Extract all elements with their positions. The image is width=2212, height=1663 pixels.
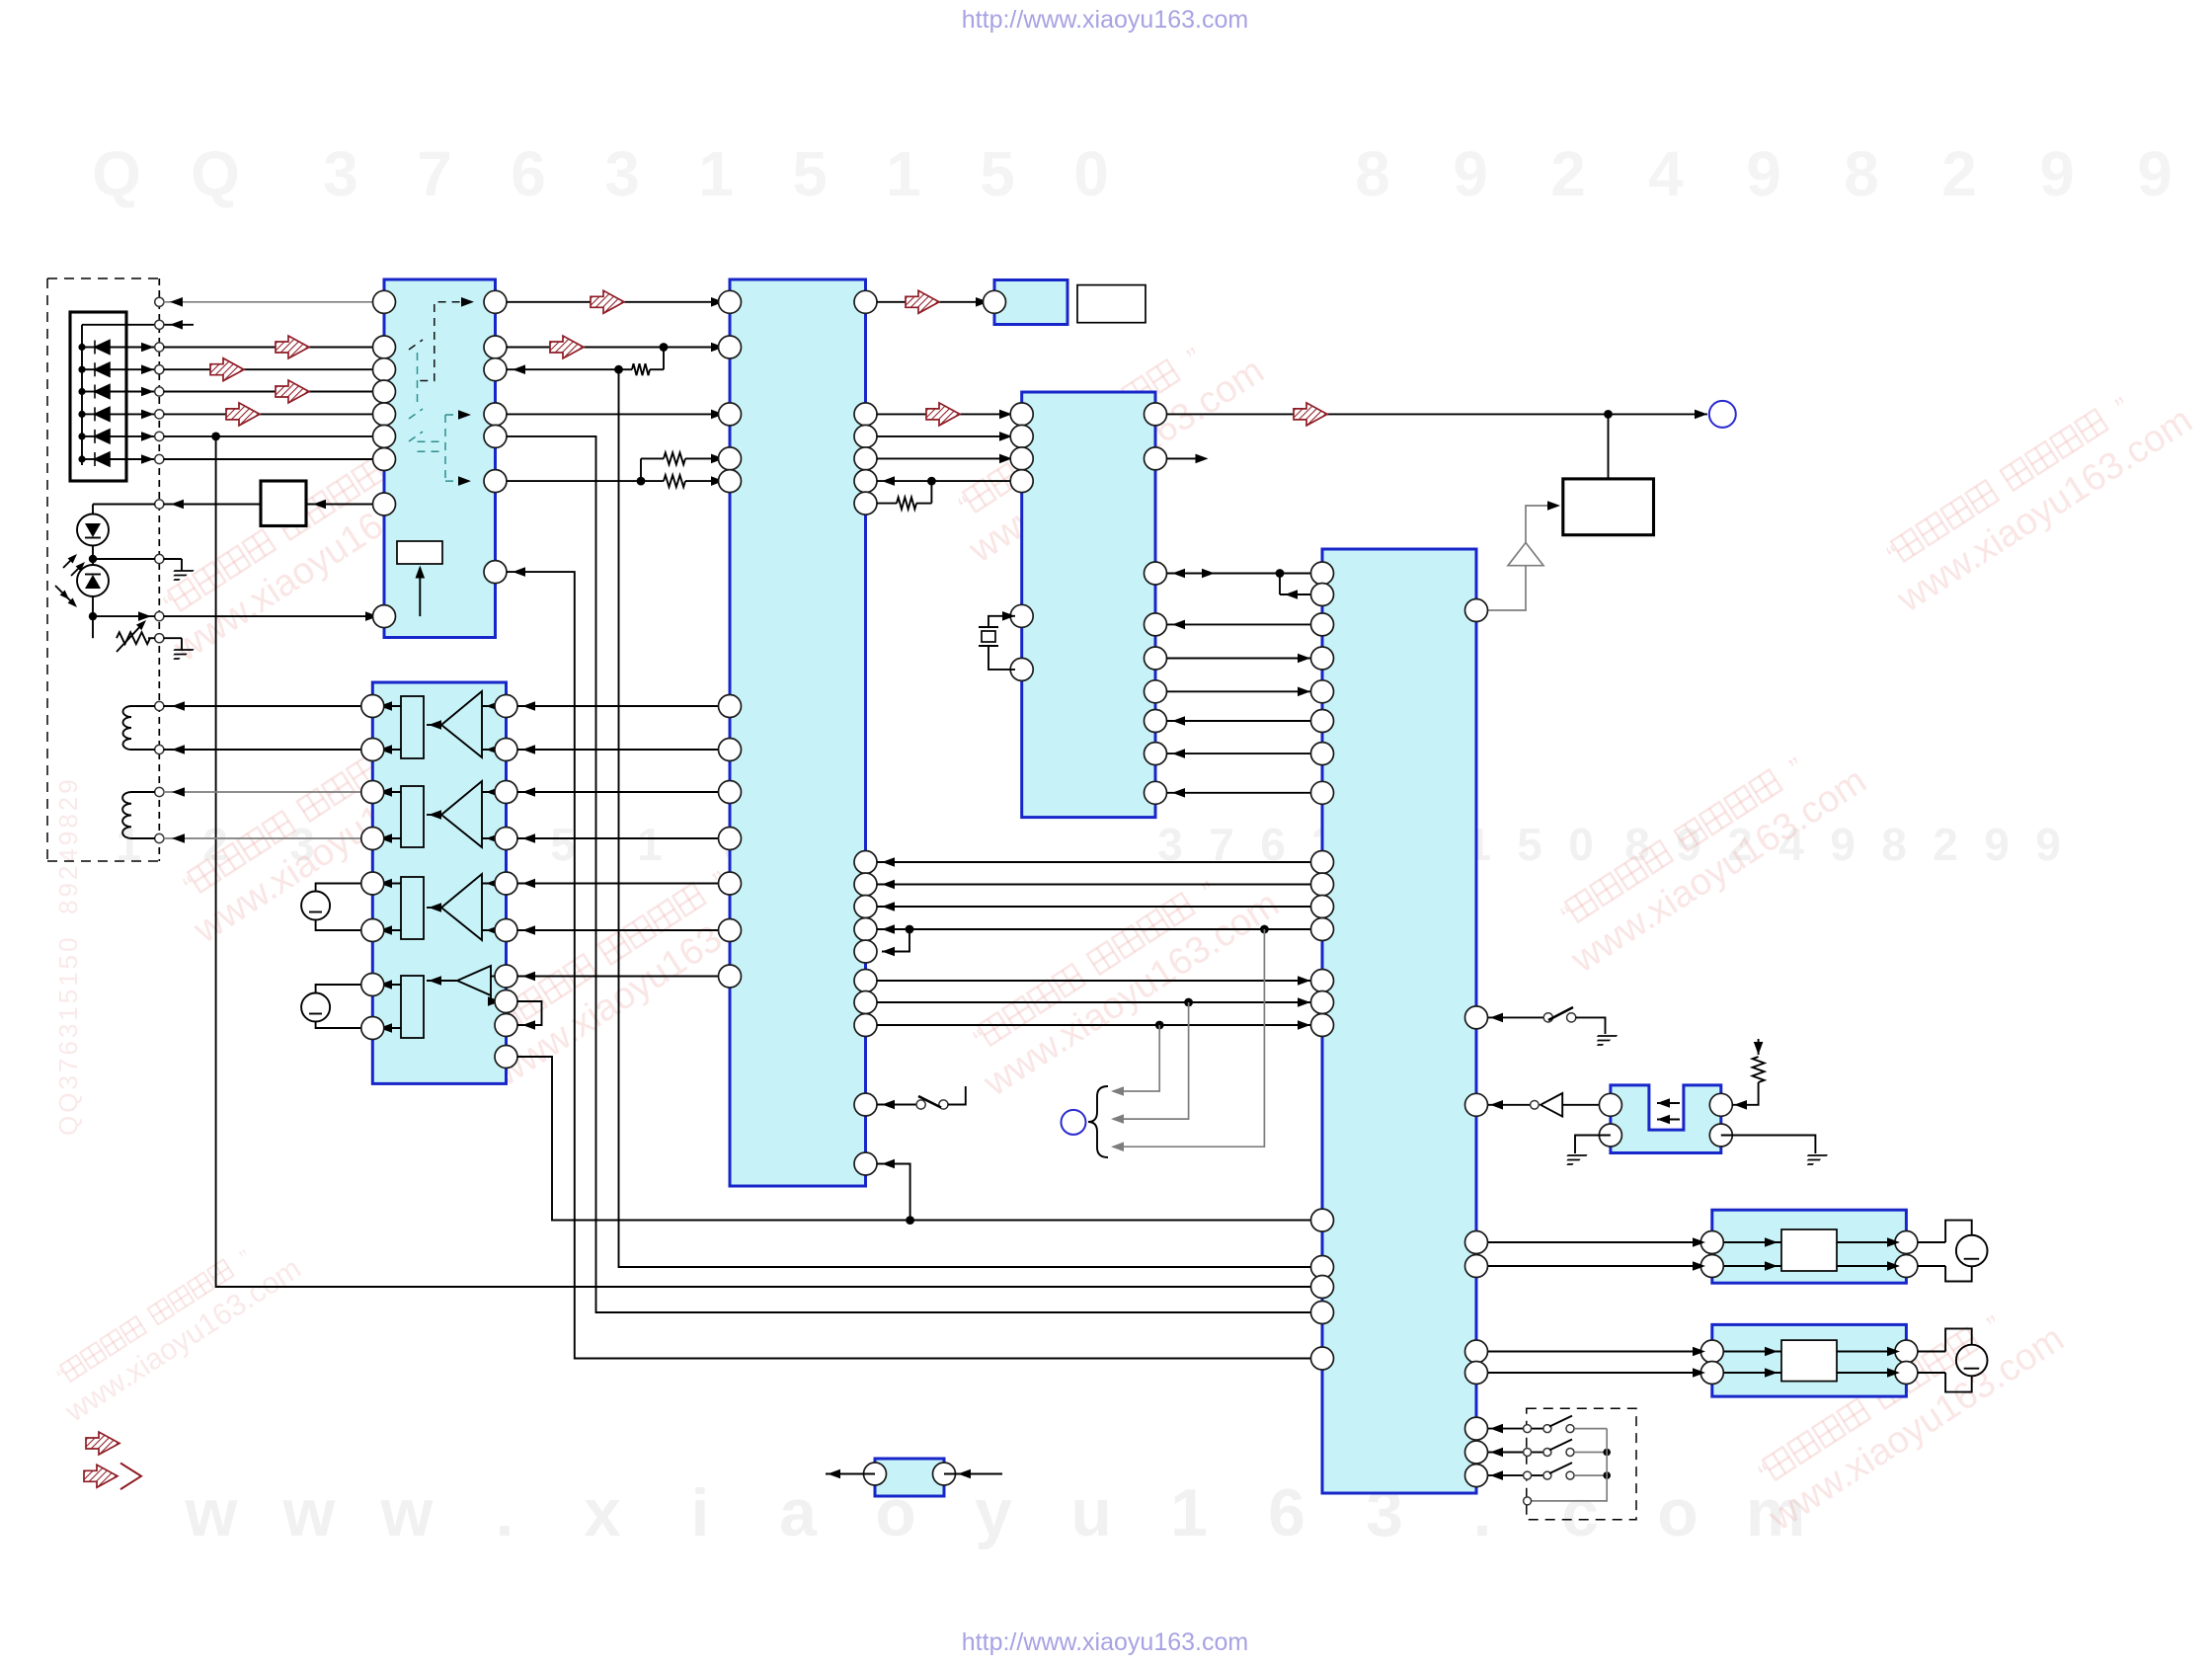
- svg-text:8: 8: [1881, 819, 1907, 870]
- svg-text:3: 3: [323, 138, 358, 209]
- svg-text:9: 9: [2039, 138, 2075, 209]
- svg-text:http://www.xiaoyu163.com: http://www.xiaoyu163.com: [962, 1628, 1248, 1656]
- svg-text:a: a: [779, 1475, 818, 1550]
- svg-text:9: 9: [1830, 819, 1856, 870]
- svg-text:5: 5: [550, 819, 576, 870]
- svg-text:w: w: [380, 1475, 434, 1550]
- svg-text:3: 3: [604, 138, 640, 209]
- svg-text:Q: Q: [92, 138, 141, 209]
- svg-text:http://www.xiaoyu163.com: http://www.xiaoyu163.com: [962, 6, 1248, 34]
- svg-text:6: 6: [1268, 1475, 1305, 1550]
- svg-text:0: 0: [1073, 138, 1109, 209]
- svg-text:0: 0: [1568, 819, 1594, 870]
- svg-text:9: 9: [1453, 138, 1488, 209]
- svg-text:7: 7: [417, 138, 452, 209]
- svg-text:2: 2: [1550, 138, 1586, 209]
- svg-text:5: 5: [1517, 819, 1542, 870]
- svg-text:x: x: [584, 1475, 621, 1550]
- svg-text:9: 9: [1984, 819, 2010, 870]
- svg-text:6: 6: [511, 138, 546, 209]
- svg-text:QQ376315150 89249829: QQ376315150 89249829: [53, 776, 83, 1136]
- svg-text:2: 2: [1933, 819, 1958, 870]
- svg-text:1: 1: [886, 138, 921, 209]
- svg-text:Q: Q: [191, 138, 240, 209]
- svg-text:w: w: [185, 1475, 239, 1550]
- svg-text:w: w: [282, 1475, 337, 1550]
- svg-text:o: o: [1657, 1475, 1698, 1550]
- svg-text:9: 9: [1746, 138, 1781, 209]
- svg-text:1: 1: [698, 138, 734, 209]
- svg-text:u: u: [1070, 1475, 1112, 1550]
- svg-text:1: 1: [637, 819, 663, 870]
- svg-text:.: .: [496, 1475, 514, 1550]
- svg-text:9: 9: [2137, 138, 2172, 209]
- svg-text:5: 5: [980, 138, 1015, 209]
- svg-text:i: i: [691, 1475, 710, 1550]
- svg-text:4: 4: [1648, 138, 1684, 209]
- svg-text:1: 1: [1170, 1475, 1208, 1550]
- svg-text:8: 8: [1355, 138, 1390, 209]
- svg-text:2: 2: [1941, 138, 1977, 209]
- svg-text:c: c: [1561, 1475, 1599, 1550]
- svg-text:9: 9: [2035, 819, 2061, 870]
- svg-text:8: 8: [1844, 138, 1879, 209]
- svg-text:5: 5: [792, 138, 828, 209]
- svg-text:y: y: [975, 1475, 1012, 1550]
